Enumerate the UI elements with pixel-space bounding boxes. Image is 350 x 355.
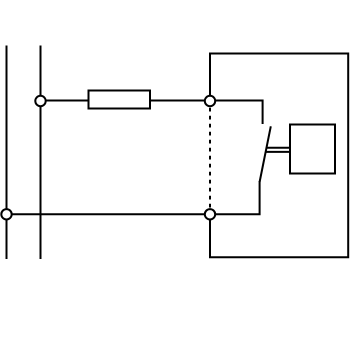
relay coil K1 — [290, 125, 335, 174]
wire second supply rail — [40, 46, 42, 260]
node B — [205, 96, 215, 106]
node C — [205, 209, 215, 219]
node A — [35, 96, 45, 106]
wire top from node A to node B — [41, 100, 211, 102]
mechanical link dashed between node B and node C — [209, 108, 211, 208]
actuator link upper line — [266, 147, 290, 149]
node D — [1, 209, 11, 219]
wire from contact blade to node C — [210, 181, 260, 214]
resistor R1 — [89, 91, 151, 109]
wire left supply rail — [6, 46, 8, 260]
wire bottom from node D to node C — [7, 213, 211, 215]
wire inside enclosure from node B to fixed contact — [210, 101, 263, 125]
actuator link lower line — [265, 151, 290, 153]
enclosure box U1 (left edge dashed between nodes) — [210, 54, 348, 258]
switch contact S1 blade — [260, 126, 271, 182]
